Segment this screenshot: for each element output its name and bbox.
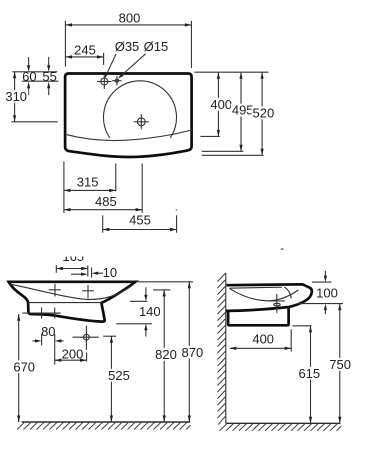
dimension 140 (116, 287, 160, 336)
side view: wall line (225, 273, 227, 424)
svg-text:200: 200 (62, 346, 84, 361)
svg-text:245: 245 (74, 42, 96, 57)
side view: bowl sag curve (230, 288, 299, 300)
ground line (side view) (226, 422, 341, 424)
dimension 165 (clipped text) (56, 249, 88, 276)
dimension 525 (103, 336, 131, 422)
dimension 495 (202, 72, 255, 151)
front view: fixing holes line (22, 312, 61, 314)
drain hole symbol (top view) (134, 114, 149, 129)
top view: front edge wave line (65, 130, 191, 140)
dimension 870 (180, 282, 204, 422)
side view: front lip inner curve (284, 287, 291, 299)
side view: bowl rim upper line (230, 287, 283, 288)
svg-text:670: 670 (13, 359, 35, 374)
top view: basin bowl arc (104, 81, 177, 138)
svg-text:870: 870 (182, 345, 204, 360)
dimension 60 (12, 57, 58, 95)
dimension 520 (202, 72, 276, 155)
dimension 80 (32, 324, 63, 364)
svg-text:55: 55 (42, 69, 56, 84)
svg-text:455: 455 (129, 213, 151, 228)
front view: fixing hole cross left (36, 308, 47, 319)
dimension 820 (154, 290, 178, 422)
dimension 400 (top view depth) (195, 72, 269, 136)
svg-text:315: 315 (77, 174, 99, 189)
svg-text:750: 750 (329, 357, 351, 372)
dimension 315 (64, 162, 116, 213)
dimension 750 (328, 304, 352, 424)
front view: basin outline (9, 282, 136, 322)
hole Ø15 symbol (112, 76, 122, 86)
svg-text:400: 400 (210, 97, 232, 112)
side view: wall hatching (218, 273, 226, 424)
stray speck (176, 209, 284, 250)
dimension 245 (65, 42, 103, 65)
dimension 100 (298, 271, 344, 314)
svg-text:520: 520 (253, 106, 275, 121)
dimension 670 (12, 314, 36, 422)
svg-text:310: 310 (5, 89, 27, 104)
reference line top (870) (138, 281, 193, 283)
svg-text:800: 800 (119, 10, 141, 25)
svg-text:80: 80 (41, 324, 55, 339)
ground line (front view) (22, 421, 191, 423)
ground hatching (front view) (17, 422, 191, 429)
side view: drain cross (269, 294, 285, 313)
svg-text:60: 60 (22, 69, 36, 84)
svg-text:525: 525 (108, 368, 130, 383)
svg-text:10: 10 (103, 265, 117, 280)
svg-text:400: 400 (252, 332, 274, 347)
side view: basin profile outline (226, 284, 312, 311)
front view: fixing hole cross right (49, 308, 60, 319)
top view: countertop outline (65, 74, 192, 158)
dimension 10 (71, 265, 117, 280)
front view: deck hole cross left (49, 284, 61, 297)
side view: apron box (228, 307, 289, 325)
svg-text:Ø35: Ø35 (115, 39, 140, 54)
front view: bowl sag curve (11, 284, 134, 299)
label Ø15 with leader (118, 39, 168, 78)
svg-text:495: 495 (232, 103, 254, 118)
dimension 310 (4, 72, 58, 122)
front view: apron top edge (28, 302, 102, 304)
dimension 455 (103, 213, 177, 233)
front view: deck hole cross right (82, 285, 94, 298)
dimension 615 (293, 326, 322, 424)
svg-text:140: 140 (139, 304, 161, 319)
svg-text:485: 485 (95, 194, 117, 209)
front view: drain symbol (73, 326, 99, 350)
svg-text:820: 820 (155, 347, 177, 362)
dimension 55 (42, 57, 56, 95)
dimension 200 (55, 346, 87, 362)
dimension 485 (64, 164, 142, 213)
ground hatching (side view) (220, 424, 342, 431)
reference line (820) (153, 289, 170, 291)
hole Ø35 symbol (97, 74, 112, 89)
svg-text:Ø15: Ø15 (144, 39, 169, 54)
svg-text:615: 615 (298, 366, 320, 381)
label Ø35 with leader (105, 39, 140, 78)
dimension 400 (side view) (230, 329, 292, 351)
dimension 800 (65, 10, 191, 68)
svg-text:100: 100 (316, 286, 338, 301)
